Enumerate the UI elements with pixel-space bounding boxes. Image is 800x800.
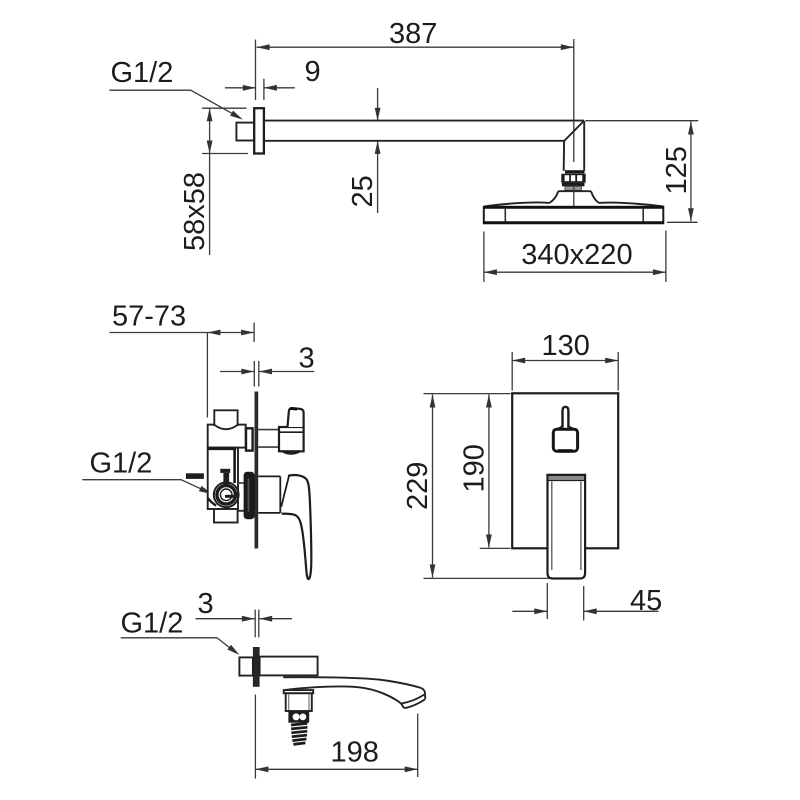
shower head slab <box>483 207 664 223</box>
svg-text:198: 198 <box>331 737 379 769</box>
dim 198 <box>255 695 417 779</box>
valve mid body <box>208 448 238 509</box>
collar under nut <box>562 183 585 187</box>
valve top port flange <box>246 428 253 450</box>
dim 229 <box>402 394 582 579</box>
inlet circle assembly <box>214 482 239 507</box>
handle (side) <box>258 475 311 579</box>
valve upper body <box>208 425 246 448</box>
spout wall flange <box>253 647 260 687</box>
label G1/2 spout <box>121 608 240 656</box>
dim 58x58 <box>179 108 248 255</box>
G1/2 nipple (arm) <box>236 123 254 141</box>
nut <box>561 174 585 183</box>
aerator flare <box>284 690 314 693</box>
dim 57-73 <box>110 301 255 418</box>
svg-text:57-73: 57-73 <box>112 301 186 333</box>
head mount cone <box>549 191 599 203</box>
gray joint band <box>565 186 581 190</box>
wall flange (arm) <box>254 108 264 153</box>
dim 3 (spout) <box>196 588 293 637</box>
diverter knob (side) <box>258 408 303 453</box>
svg-text:9: 9 <box>305 56 321 88</box>
dim 130 <box>512 330 618 391</box>
svg-text:45: 45 <box>630 585 662 617</box>
dim 125 <box>585 121 698 223</box>
dim 190 <box>459 395 511 549</box>
spout nipple <box>239 657 253 675</box>
spout body <box>260 657 318 676</box>
svg-text:G1/2: G1/2 <box>121 608 184 640</box>
head top dome <box>484 202 663 206</box>
escutcheon (side) <box>244 472 255 519</box>
inlet pipe <box>186 473 204 479</box>
svg-text:387: 387 <box>389 18 437 50</box>
svg-text:229: 229 <box>402 462 434 510</box>
plate diverter knob <box>553 407 577 451</box>
dim 25 <box>347 88 381 213</box>
svg-text:25: 25 <box>347 175 379 207</box>
dim 45 <box>512 583 662 621</box>
dim 3 (mixer) <box>220 343 315 387</box>
cartridge port lines <box>238 483 245 511</box>
arm drop tube <box>564 121 585 174</box>
aerator nut <box>288 712 309 723</box>
svg-text:3: 3 <box>198 588 214 620</box>
svg-text:125: 125 <box>661 146 693 194</box>
svg-text:G1/2: G1/2 <box>90 448 153 480</box>
svg-text:58x58: 58x58 <box>179 172 211 251</box>
threaded stud <box>291 723 307 744</box>
aerator collar <box>286 693 312 711</box>
label G1/2 mixer <box>82 448 212 495</box>
svg-text:190: 190 <box>459 444 491 492</box>
circle tail arc <box>208 498 216 505</box>
svg-text:340x220: 340x220 <box>521 239 632 271</box>
trim plate <box>512 393 618 548</box>
plate handle <box>548 475 586 579</box>
dim 340x220 <box>484 231 666 282</box>
label G1/2 top <box>110 57 243 120</box>
head centerline <box>573 186 575 208</box>
svg-text:130: 130 <box>542 330 590 362</box>
shower arm <box>264 121 584 141</box>
dim 9 <box>225 56 321 100</box>
svg-text:3: 3 <box>299 343 315 375</box>
dim 387 <box>256 18 574 162</box>
svg-text:G1/2: G1/2 <box>111 57 174 89</box>
spout horn <box>283 677 425 708</box>
valve top cap <box>214 410 237 429</box>
tee fitting <box>220 469 230 485</box>
valve bottom cap <box>214 509 238 523</box>
wall line (mixer) <box>255 392 259 549</box>
